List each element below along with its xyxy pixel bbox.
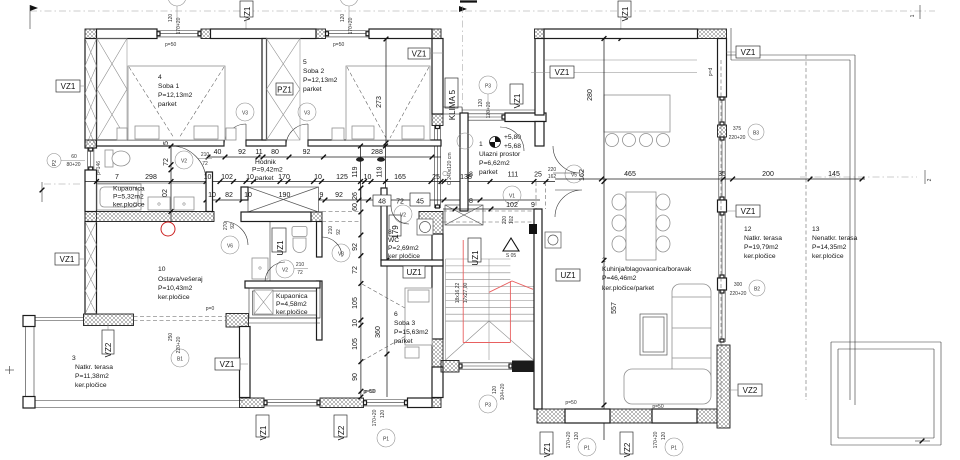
svg-text:V5: V5: [571, 173, 577, 179]
stair size rotated text: [455, 282, 469, 303]
svg-text:3: 3: [72, 355, 76, 362]
kitchen counter line: [531, 60, 697, 73]
svg-text:300: 300: [734, 282, 743, 288]
lower right patio rectangles: [831, 342, 941, 445]
svg-text:92: 92: [352, 243, 359, 251]
svg-text:p=50: p=50: [165, 42, 176, 48]
svg-text:P=9,42m2: P=9,42m2: [252, 167, 283, 174]
svg-text:120: 120: [574, 432, 580, 441]
svg-text:120: 120: [168, 14, 174, 23]
terrace 12/13 divider dashed: [805, 55, 807, 400]
svg-text:1: 1: [479, 141, 483, 148]
door circle V3 Soba2: [298, 103, 316, 121]
B1 grid bubble: [168, 333, 189, 367]
svg-text:119: 119: [377, 166, 384, 177]
svg-text:VZ2: VZ2: [743, 386, 758, 395]
svg-text:9: 9: [320, 192, 324, 199]
bottom wall corner hatch: [432, 398, 441, 408]
outer wall top segment 2: [211, 29, 317, 39]
svg-text:72: 72: [297, 270, 303, 276]
bed Soba 1: [117, 66, 236, 140]
P1 bubble 2 bottom right apt: [653, 431, 683, 456]
UZ1 rotated label stairwell: [468, 238, 481, 266]
svg-text:V2: V2: [181, 159, 187, 165]
svg-text:80+20: 80+20: [66, 162, 80, 168]
dimension row C line: [204, 198, 441, 203]
svg-text:25: 25: [534, 172, 542, 179]
svg-text:P=14,35m2: P=14,35m2: [812, 244, 847, 251]
svg-text:P=15,63m2: P=15,63m2: [394, 329, 429, 336]
stairwell dashed top lines: [443, 211, 535, 222]
bed soba 3: [405, 288, 432, 358]
svg-text:parket: parket: [255, 175, 274, 182]
door circle V2 WC: [391, 205, 412, 224]
PZ1 label Soba2: [276, 83, 293, 95]
svg-text:VZ1: VZ1: [61, 82, 76, 91]
vertical dim line x=171: [169, 144, 174, 221]
room 10 Ostava text: [158, 266, 203, 301]
dim 273 vertical Soba2: [376, 37, 388, 146]
dimension row C numbers: [208, 192, 343, 199]
svg-text:Ulazni prostor: Ulazni prostor: [479, 151, 521, 158]
bottom wall: hatch seg 1: [240, 398, 265, 408]
Hodnik room text: [252, 159, 283, 182]
VZ1 rotated box top at x=246: [240, 1, 253, 29]
threshold marks Soba 2: [356, 157, 385, 161]
outer wall left lower: [85, 222, 97, 315]
bed Soba 2: [332, 66, 430, 140]
door arc V5: [553, 146, 580, 173]
stair steps upper flight: [446, 259, 534, 360]
VZ1 rotated box top at x=624: [618, 1, 631, 41]
right wall window 4: [718, 290, 720, 342]
right wall hatch block: [718, 125, 727, 137]
WC text: [388, 229, 420, 260]
svg-text:VZ2: VZ2: [337, 425, 346, 440]
hatch right wall lower: [432, 339, 443, 367]
VZ1 box left lower: [55, 253, 85, 265]
dashed opening lines above corridor: [322, 212, 360, 222]
VZ2 rotated label bottom-left wall: [102, 325, 114, 357]
svg-text:10: 10: [352, 319, 359, 327]
svg-text:2: 2: [602, 257, 606, 264]
stair red walking line with arrow: [463, 240, 533, 343]
138 dim below entry: [443, 207, 535, 212]
svg-text:11: 11: [255, 149, 262, 156]
wall stub left of closet: [241, 187, 248, 200]
grid axis 2 right side: [800, 170, 933, 184]
svg-text:102: 102: [221, 174, 233, 181]
sink fixture near stairs wall: [545, 232, 561, 248]
door arc V2 bathroom7: [171, 146, 206, 181]
VZ2 box right: [728, 384, 762, 396]
svg-text:V2: V2: [282, 268, 288, 274]
window W2 top (p=50): [326, 30, 370, 32]
svg-text:119: 119: [352, 166, 359, 177]
svg-text:parket: parket: [158, 101, 177, 108]
svg-text:p=50: p=50: [333, 42, 344, 48]
svg-text:120: 120: [380, 410, 386, 419]
svg-text:P=6,62m2: P=6,62m2: [479, 160, 510, 167]
terrace 12/13 outer boundary: [726, 28, 855, 405]
svg-text:210: 210: [328, 226, 334, 235]
svg-text:90: 90: [352, 373, 359, 381]
svg-text:220+20: 220+20: [730, 291, 747, 297]
svg-text:10: 10: [246, 174, 254, 181]
hatch block left wall: [85, 212, 97, 222]
svg-text:9: 9: [531, 202, 535, 209]
hatch block right wall at WC corner: [419, 212, 443, 235]
terrace 3 left tick marks: [5, 366, 14, 374]
terrace 3 outline: [23, 316, 243, 409]
wall pier hatch top 2: [316, 29, 326, 39]
entry left wall: [460, 113, 468, 211]
svg-text:ker.pločice: ker.pločice: [276, 309, 308, 316]
svg-text:120: 120: [492, 386, 498, 395]
svg-text:280: 280: [587, 89, 594, 101]
toilet kupaonica 9: [292, 227, 307, 253]
outer wall top: left corner hatch: [85, 29, 97, 39]
svg-text:220+20: 220+20: [729, 135, 746, 141]
svg-text:UZ1: UZ1: [276, 240, 285, 256]
svg-text:138: 138: [460, 174, 472, 181]
outer wall right mid: [432, 234, 443, 339]
svg-text:13: 13: [812, 226, 820, 233]
right apt top wall: [544, 29, 698, 39]
svg-text:145: 145: [828, 171, 840, 178]
grid bubble column C at x=177: [168, 0, 186, 34]
svg-text:VZ2: VZ2: [623, 442, 632, 457]
svg-text:WC: WC: [388, 237, 399, 244]
svg-text:P=12,13m2: P=12,13m2: [303, 77, 338, 84]
svg-text:270: 270: [223, 222, 229, 231]
svg-text:B3: B3: [753, 131, 759, 137]
dashed extension lines right terrace: [720, 60, 722, 403]
interior wall below bedrooms seg C: [308, 140, 441, 146]
svg-text:105: 105: [352, 338, 359, 350]
labels 26 60 92 72 105 10 105 90: [352, 192, 359, 381]
svg-text:P3: P3: [485, 84, 491, 90]
bottom-right grid tick: [915, 439, 930, 444]
wall right of kupaonica9 zone vertical: [317, 222, 323, 258]
VZ1 rotated box entry: [510, 84, 523, 108]
WC bottom wall: [381, 260, 443, 266]
room 6 soba3 text: [394, 311, 429, 345]
svg-text:Soba 3: Soba 3: [394, 320, 415, 327]
stairwell bottom wall with window: [441, 361, 535, 373]
svg-text:P3: P3: [485, 403, 491, 409]
svg-text:P=4,58m2: P=4,58m2: [276, 301, 307, 308]
level marker +5,80 +5,68: [490, 134, 522, 150]
right apt right wall top: [718, 39, 727, 98]
svg-text:ker.pločice: ker.pločice: [113, 202, 145, 209]
svg-text:60: 60: [71, 154, 77, 160]
svg-text:200: 200: [762, 171, 774, 178]
sink kupaonica 9: [252, 258, 268, 279]
vertical wall left of Soba3 corridor: [240, 327, 251, 398]
svg-text:+5,80: +5,80: [504, 134, 521, 141]
P2 grid bubble left: [47, 154, 85, 169]
svg-text:V1: V1: [509, 194, 515, 200]
svg-text:Nenatkr. terasa: Nenatkr. terasa: [812, 235, 858, 242]
outer wall top right corner hatch: [432, 29, 441, 39]
wall pier hatch top: [201, 29, 211, 39]
kupaonica 9 text: [276, 293, 308, 316]
svg-text:72: 72: [163, 158, 170, 166]
svg-text:parket: parket: [479, 169, 498, 176]
svg-text:92: 92: [335, 192, 343, 199]
bottom wall window 1: [264, 399, 320, 401]
svg-text:92: 92: [336, 229, 342, 235]
svg-text:p=d: p=d: [708, 68, 714, 77]
outer wall left upper: [85, 39, 97, 149]
svg-text:O 240x120 cm: O 240x120 cm: [447, 152, 453, 185]
svg-text:105: 105: [352, 297, 359, 309]
window W1 top (p=50): [157, 30, 201, 32]
kupaonica 7 top boundary: [97, 182, 207, 184]
grid bubble column D at x=349: [340, 0, 358, 34]
svg-text:170+20: 170+20: [372, 409, 378, 426]
svg-text:VZ1: VZ1: [555, 68, 570, 77]
svg-text:170+20: 170+20: [566, 431, 572, 448]
outer wall right bottom: [432, 367, 443, 398]
svg-text:72: 72: [396, 199, 404, 206]
room 2 kitchen text: [602, 257, 692, 292]
179 rotated door label: [389, 215, 401, 239]
svg-text:6: 6: [394, 311, 398, 318]
svg-text:220: 220: [502, 216, 508, 225]
partition line kupaonica9: [269, 222, 271, 281]
svg-text:PZ1: PZ1: [277, 86, 292, 95]
svg-text:12: 12: [744, 226, 752, 233]
right apt left wall upper: [535, 39, 544, 116]
right wall window 2: [718, 137, 720, 200]
interior wall below bedrooms seg A: [97, 140, 225, 146]
svg-text:P1: P1: [584, 446, 590, 452]
svg-text:102: 102: [509, 216, 515, 225]
svg-text:Natkr. terasa: Natkr. terasa: [744, 235, 782, 242]
svg-text:26: 26: [352, 192, 359, 200]
stair lower flight diagonals: [446, 321, 534, 360]
svg-text:375: 375: [733, 126, 742, 132]
door arc V6 ostava: [221, 222, 248, 255]
svg-text:VZ1: VZ1: [220, 360, 235, 369]
outer wall top segment 3: [369, 29, 432, 39]
P3 grid bubble bottom: [479, 395, 497, 413]
svg-text:7: 7: [115, 174, 119, 181]
svg-text:Kupaonica: Kupaonica: [113, 186, 145, 193]
svg-text:P1: P1: [671, 446, 677, 452]
patio sliding door p=0 opening: [134, 317, 227, 321]
VZ1 box right top: [727, 46, 761, 58]
svg-text:VZ1: VZ1: [741, 207, 756, 216]
entry light circle: [457, 133, 473, 149]
svg-text:92: 92: [238, 149, 246, 156]
svg-text:465: 465: [624, 171, 636, 178]
door circle V2 kupaonica9: [265, 260, 308, 282]
dimension row B numbers: [115, 171, 472, 181]
room 12 terasa text: [744, 226, 782, 260]
svg-text:Soba 1: Soba 1: [158, 83, 179, 90]
svg-text:210: 210: [296, 262, 305, 268]
door arc lower (to stairs): [555, 190, 582, 217]
right apt bottom wall segments: [537, 409, 717, 423]
UZ1 box right apt: [556, 269, 580, 281]
svg-text:VZ1: VZ1: [741, 48, 756, 57]
VZ2 rotated bottom left apt: [334, 415, 347, 440]
svg-text:V3: V3: [304, 111, 310, 117]
svg-text:+5,68: +5,68: [504, 143, 521, 150]
PZ1 rotated label Soba1: [146, 112, 158, 135]
washer red circle: [161, 222, 175, 236]
svg-text:p=50: p=50: [652, 404, 663, 410]
grid axis line 1 (top horizontal dash-dot): [30, 5, 935, 19]
220 102 rotated small entry: [502, 216, 515, 225]
svg-text:60: 60: [352, 203, 359, 211]
svg-text:Soba 2: Soba 2: [303, 68, 324, 75]
svg-text:120: 120: [661, 432, 667, 441]
P1 bubble bottom right apt: [566, 431, 596, 456]
svg-text:25: 25: [432, 174, 440, 181]
svg-text:48: 48: [378, 199, 386, 206]
svg-text:2: 2: [927, 178, 933, 181]
kupaonica 9 walls: [245, 281, 320, 323]
svg-text:P=46,46m2: P=46,46m2: [602, 275, 637, 282]
coffee table: [640, 314, 667, 355]
wardrobe PZ1 Soba2: [267, 39, 301, 141]
VZ1 box top right: [408, 48, 443, 59]
room 4 Soba 1 text: [158, 74, 193, 108]
door arc V3 Soba2: [286, 124, 308, 146]
S 05 triangle symbol: [503, 238, 519, 259]
svg-text:10: 10: [158, 266, 166, 273]
svg-text:UZ1: UZ1: [471, 250, 480, 266]
svg-text:92: 92: [303, 149, 311, 156]
svg-text:170: 170: [278, 174, 290, 181]
svg-text:111: 111: [508, 172, 519, 179]
interior wall below bedrooms seg B: [246, 140, 286, 146]
insulation X pattern left wall upper: [85, 39, 97, 149]
svg-text:102: 102: [506, 202, 518, 209]
svg-text:298: 298: [145, 174, 157, 181]
svg-text:5: 5: [163, 141, 170, 145]
svg-text:82: 82: [225, 192, 233, 199]
svg-text:ker pločice: ker pločice: [388, 253, 420, 260]
svg-text:Hodnik: Hodnik: [255, 159, 276, 166]
shower kupaonica 9: [254, 290, 273, 314]
closet 190 with cross: [248, 187, 319, 212]
VZ2 rotated bottom right apt: [620, 432, 633, 457]
svg-text:VZ1: VZ1: [243, 6, 252, 21]
grid bubble column E at x=463: [459, 2, 477, 114]
svg-text:UZ1: UZ1: [406, 268, 422, 277]
svg-text:S 05: S 05: [506, 253, 517, 259]
soba 3 dashed diagonals: [362, 284, 430, 361]
B3 bubble + dims: [729, 124, 764, 141]
dimension row A numbers: [214, 149, 383, 156]
V1 door circle: [503, 186, 535, 209]
svg-text:17x27,00: 17x27,00: [463, 282, 469, 303]
KLIMA 5 rotated box: [445, 78, 458, 120]
hatch block right wall: [432, 114, 443, 126]
svg-text:10: 10: [364, 174, 372, 181]
wall below closet: [241, 212, 311, 222]
svg-text:250: 250: [168, 333, 174, 342]
svg-text:P=12,13m2: P=12,13m2: [158, 92, 193, 99]
svg-text:Kuhinja/blagovaonica/boravak: Kuhinja/blagovaonica/boravak: [602, 266, 692, 273]
hatch block left wall at corridor wall: [85, 140, 97, 148]
VZ1 rotated bottom left apt: [256, 415, 269, 440]
door size boxes 48 72 45: [373, 193, 430, 206]
dimension row A line: [206, 155, 441, 160]
insulation X pattern left wall lower: [85, 222, 97, 314]
right wall pier: [718, 200, 727, 212]
kupaonica 7 bottom hatch band: [85, 212, 214, 222]
window left wall (bathroom): [87, 148, 89, 170]
svg-text:Natkr. terasa: Natkr. terasa: [75, 364, 113, 371]
svg-text:ker.pločice: ker.pločice: [75, 382, 107, 389]
stair bottom dims rotated: [492, 383, 506, 400]
grid axis flag top-left: [30, 5, 38, 29]
svg-text:B1: B1: [177, 357, 183, 363]
dim 270 92 rotated near closet: [223, 222, 236, 231]
svg-text:557: 557: [611, 302, 618, 314]
klima unit small rect outside wall: [443, 107, 540, 114]
entry dim numbers 138 111 25: [508, 167, 557, 180]
door circle V3 Soba1: [236, 103, 254, 121]
svg-text:210: 210: [201, 152, 210, 158]
svg-text:273: 273: [376, 96, 383, 108]
P1 bubble bottom left apt: [372, 409, 395, 447]
sink 2 kupaonica 7: [174, 197, 194, 210]
svg-text:parket: parket: [394, 338, 413, 345]
svg-text:40: 40: [214, 149, 222, 156]
svg-text:170+20: 170+20: [653, 431, 659, 448]
P3 grid bubble top: [478, 76, 497, 118]
kitchen island: [604, 95, 670, 147]
VZ1 box lower middle: [215, 358, 248, 370]
svg-text:10: 10: [204, 174, 212, 181]
svg-text:10: 10: [208, 192, 216, 199]
UZ1 box below WC: [403, 266, 425, 278]
svg-text:190: 190: [279, 192, 291, 199]
svg-text:V3: V3: [338, 252, 344, 258]
outer wall right of left apartment upper: [432, 39, 443, 115]
svg-text:120+20: 120+20: [486, 101, 492, 118]
svg-text:220: 220: [548, 167, 557, 173]
svg-text:ker.pločice/parket: ker.pločice/parket: [602, 285, 654, 292]
bottom wall window 2 (p=50): [364, 399, 408, 401]
door V1 pocket dashed lines: [536, 182, 546, 209]
V5 door circle: [565, 165, 583, 183]
B2 bubble + dims: [730, 280, 765, 297]
dining table right apt: [612, 192, 670, 260]
svg-text:VZ1: VZ1: [259, 425, 268, 440]
vertical dim 360 line x=381: [375, 255, 389, 397]
VZ1 box kitchen: [550, 66, 574, 78]
VZ1 rotated bottom right apt: [540, 432, 553, 457]
svg-text:ker.pločice: ker.pločice: [158, 294, 190, 301]
svg-text:4: 4: [158, 74, 162, 81]
outer wall left mid: [85, 170, 97, 212]
room 5 Soba 2 text: [303, 59, 338, 93]
svg-text:360: 360: [375, 326, 382, 338]
svg-text:P=10,43m2: P=10,43m2: [158, 285, 193, 292]
toilet kupaonica 7: [105, 150, 130, 167]
entry room text: [479, 141, 521, 176]
svg-text:Ostava/vešeraj: Ostava/vešeraj: [158, 276, 203, 283]
svg-text:5: 5: [303, 59, 307, 66]
